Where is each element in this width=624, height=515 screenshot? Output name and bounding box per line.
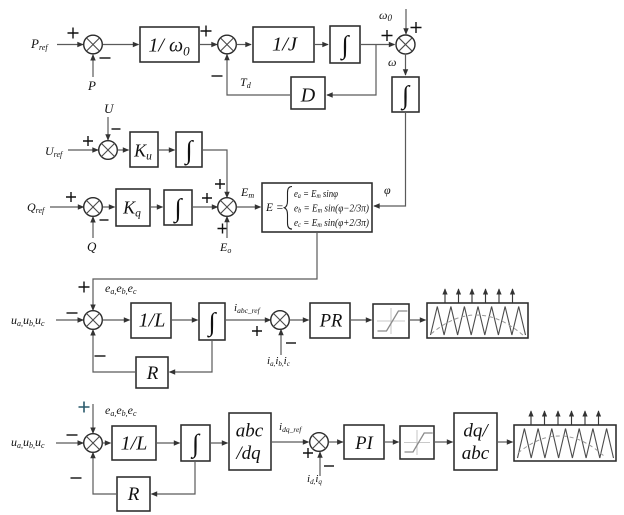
svg-text:ea,eb,ec: ea,eb,ec bbox=[105, 281, 137, 296]
svg-text:E =: E = bbox=[265, 202, 284, 214]
svg-text:1/L: 1/L bbox=[121, 433, 148, 455]
svg-text:φ: φ bbox=[384, 183, 391, 197]
svg-text:P: P bbox=[87, 78, 96, 93]
svg-text:ua,ub,uc: ua,ub,uc bbox=[11, 313, 45, 328]
svg-text:abc: abc bbox=[236, 421, 264, 442]
svg-text:ea,eb,ec: ea,eb,ec bbox=[105, 403, 137, 418]
svg-text:R: R bbox=[146, 363, 159, 384]
svg-text:PI: PI bbox=[354, 434, 373, 454]
svg-text:eb = Em sin(φ−2/3π): eb = Em sin(φ−2/3π) bbox=[294, 204, 369, 215]
svg-text:Q: Q bbox=[87, 239, 97, 254]
svg-text:ua,ub,uc: ua,ub,uc bbox=[11, 435, 45, 450]
svg-text:PR: PR bbox=[319, 312, 343, 332]
svg-text:ec = Em sin(φ+2/3π): ec = Em sin(φ+2/3π) bbox=[294, 218, 369, 229]
svg-text:U: U bbox=[104, 101, 115, 116]
svg-text:1/L: 1/L bbox=[139, 310, 166, 332]
svg-text:ea = Em sinφ: ea = Em sinφ bbox=[294, 189, 338, 200]
svg-text:R: R bbox=[127, 484, 140, 505]
svg-text:dq/: dq/ bbox=[463, 421, 489, 442]
svg-text:abc: abc bbox=[462, 443, 490, 464]
svg-text:1/J: 1/J bbox=[272, 34, 298, 56]
svg-text:/dq: /dq bbox=[235, 443, 261, 464]
svg-text:D: D bbox=[300, 85, 316, 107]
svg-text:ω: ω bbox=[388, 55, 396, 69]
